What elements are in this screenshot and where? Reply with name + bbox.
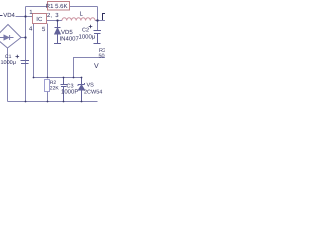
wire R2 bottom (47, 92, 49, 102)
svg-text:2CW54: 2CW54 (84, 90, 102, 96)
resistor R1 box (48, 2, 70, 11)
IC box U1 (33, 14, 47, 24)
capacitor C2 plates (94, 31, 102, 44)
svg-text:2,: 2, (47, 12, 52, 19)
svg-text:VD5: VD5 (61, 29, 73, 36)
wire IC pin 4 down then feedback bus to VS (34, 24, 82, 78)
capacitor C2 plus mark (89, 25, 93, 29)
capacitor C1 plates (21, 61, 30, 64)
capacitor C1 plus mark (16, 55, 20, 59)
output terminal (102, 14, 105, 21)
wire IC pins 2,3 to inductor (47, 20, 63, 22)
capacitor C3 (61, 78, 68, 102)
resistor R2 box (45, 80, 50, 92)
svg-text:50: 50 (99, 54, 105, 60)
wire bridge bottom vertical (7, 48, 9, 102)
svg-text:IN4007: IN4007 (60, 36, 80, 43)
svg-text:1000μ: 1000μ (79, 33, 96, 40)
svg-text:R1 5.6K: R1 5.6K (46, 3, 68, 10)
ground C2 (94, 43, 101, 45)
wire right vertical from top rail down to output node (97, 7, 99, 31)
svg-text:4: 4 (29, 26, 33, 33)
svg-text:L: L (80, 11, 84, 18)
svg-text:VD4: VD4 (3, 12, 15, 19)
wire bottom ground rail (8, 101, 98, 103)
wire bridge output to node (21, 37, 26, 39)
svg-text:IC: IC (36, 16, 43, 23)
svg-text:3: 3 (55, 12, 59, 19)
diode VD5 (55, 21, 61, 44)
inductor L coil (62, 18, 95, 21)
label VD4 leader dash (0, 15, 3, 17)
svg-text:22K: 22K (50, 85, 60, 91)
svg-text:1000μ: 1000μ (1, 60, 16, 66)
wire IC pin 5 down to feedback bus (47, 24, 49, 78)
zener diode VS (78, 78, 85, 102)
bridge inner diode (0, 35, 14, 40)
svg-text:VS: VS (87, 83, 95, 89)
ground VD5 (54, 43, 61, 45)
wire top rail left segment (26, 6, 48, 8)
wire main input vertical (bridge + to C1 to ground rail) (25, 7, 27, 102)
svg-text:C2: C2 (82, 28, 89, 34)
wire IC pin 1 (16, 16, 33, 18)
junction node dots (24, 15, 98, 102)
wire top rail right segment (70, 6, 98, 8)
svg-text:5: 5 (42, 26, 46, 33)
svg-text:V: V (94, 63, 99, 70)
wire output sense line from right edge down to bus (74, 58, 106, 78)
bridge rectifier VD1~VD4 diamond (0, 25, 21, 49)
wire inductor right end to output terminal (95, 20, 105, 22)
svg-text:1000P: 1000P (61, 89, 78, 96)
